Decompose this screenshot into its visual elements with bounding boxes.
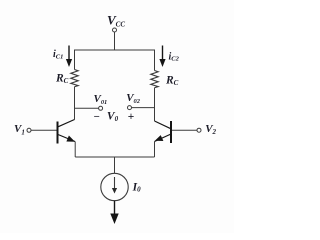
current source inner arrow bbox=[112, 177, 117, 194]
wire V02 terminal to right collector bbox=[132, 107, 155, 109]
svg-text:V1: V1 bbox=[14, 123, 25, 136]
resistor RC right bbox=[151, 71, 158, 88]
wire VCC to top rail bbox=[114, 32, 116, 50]
label RC left bbox=[55, 73, 69, 86]
svg-text:V01: V01 bbox=[94, 93, 108, 106]
wire Q2 base to V2 bbox=[172, 129, 197, 131]
label plus sign bbox=[128, 111, 135, 123]
svg-text:RC: RC bbox=[165, 75, 179, 88]
wire tap to V01 terminal bbox=[75, 107, 99, 109]
current arrow iC2 bbox=[159, 46, 165, 68]
svg-text:RC: RC bbox=[55, 73, 69, 86]
label V01 bbox=[94, 93, 108, 106]
node VCC terminal circle bbox=[113, 28, 117, 32]
wire rail to current source bbox=[114, 157, 116, 173]
wire left resistor to collector bbox=[74, 87, 76, 120]
label iC2 bbox=[169, 51, 180, 62]
node VCC label bbox=[107, 12, 125, 28]
svg-text:V2: V2 bbox=[205, 123, 216, 136]
wire Q1 emitter down bbox=[74, 142, 76, 158]
label iC1 bbox=[53, 49, 63, 60]
wire top rail bbox=[75, 49, 155, 51]
transistor Q2 emitter diagonal with arrow bbox=[155, 134, 172, 142]
resistor RC left bbox=[71, 70, 78, 87]
label I0 bbox=[132, 181, 141, 193]
svg-text:V0: V0 bbox=[107, 110, 119, 123]
wire rail to left resistor bbox=[74, 50, 76, 70]
node V1 label bbox=[14, 123, 25, 136]
transistor Q2 collector diagonal bbox=[155, 121, 172, 129]
svg-text:+: + bbox=[128, 111, 135, 123]
svg-text:I0: I0 bbox=[132, 181, 141, 193]
transistor Q2 base bar bbox=[170, 121, 172, 143]
current source I0 circle bbox=[101, 173, 128, 200]
transistor Q1 base bar bbox=[57, 122, 59, 144]
svg-text:iC2: iC2 bbox=[169, 51, 180, 62]
node V1 terminal circle bbox=[27, 128, 31, 132]
node V01 terminal circle bbox=[99, 106, 103, 110]
transistor Q1 emitter diagonal with arrow bbox=[58, 135, 75, 142]
label V02 bbox=[126, 92, 141, 105]
wire rail to right resistor bbox=[154, 50, 156, 71]
label V0 bbox=[107, 110, 119, 123]
wire Q2 emitter down bbox=[154, 142, 156, 158]
svg-text:−: − bbox=[93, 111, 100, 123]
svg-text:V02: V02 bbox=[126, 92, 141, 105]
label RC right bbox=[165, 75, 179, 88]
wire right resistor to collector bbox=[154, 88, 156, 121]
wire emitter common rail bbox=[75, 156, 154, 158]
wire and output arrow below current source bbox=[110, 201, 118, 224]
node V2 label bbox=[205, 123, 216, 136]
wire V1 to Q1 base bbox=[31, 129, 57, 131]
node V02 terminal circle bbox=[128, 106, 132, 110]
label minus sign bbox=[93, 111, 100, 123]
node V2 terminal circle bbox=[197, 128, 201, 132]
current arrow iC1 bbox=[66, 46, 72, 68]
svg-text:VCC: VCC bbox=[107, 12, 125, 28]
svg-text:iC1: iC1 bbox=[53, 49, 63, 60]
transistor Q1 collector diagonal bbox=[58, 120, 75, 127]
